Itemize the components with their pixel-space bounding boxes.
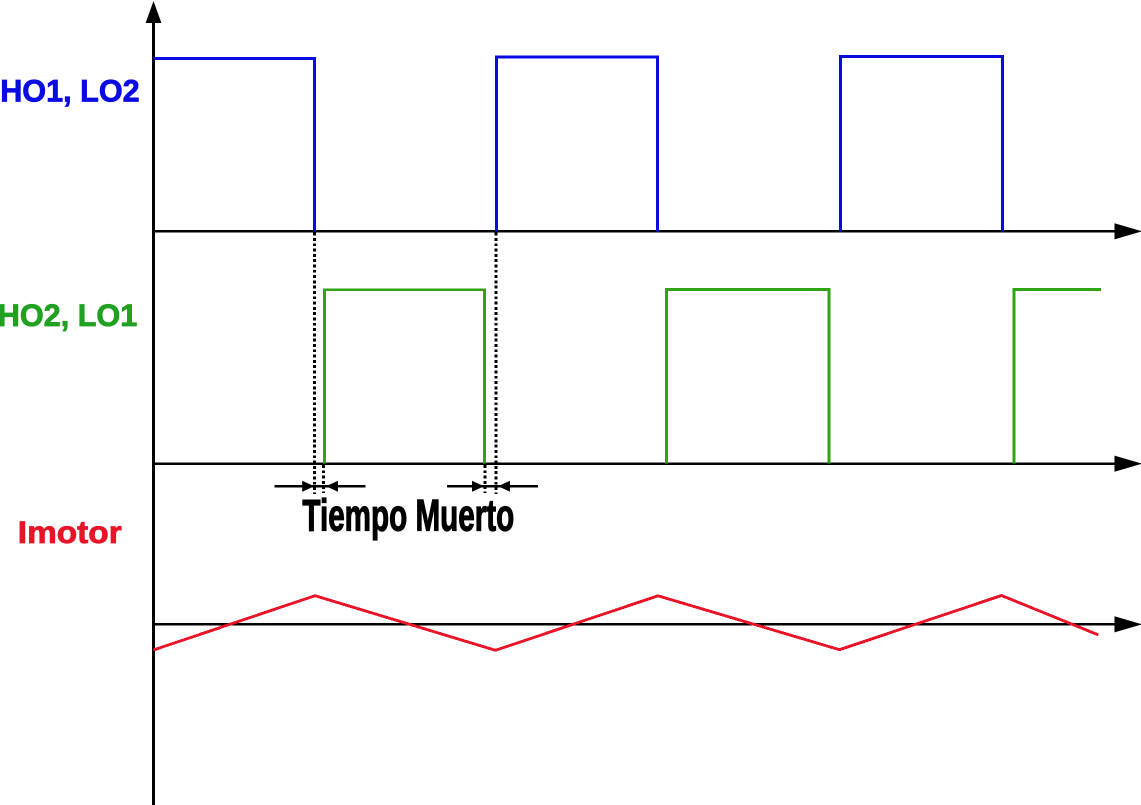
vertical time axis [152,10,155,805]
green waveform HO2,LO1 [324,290,1101,464]
svg-text:HO2, LO1: HO2, LO1 [0,297,137,333]
baseline 3 (Imotor axis) [152,623,1116,626]
dotted line at blue rising edge [494,233,497,494]
dead time arrow line left [275,485,366,488]
blue waveform HO1,LO2 [154,56,1003,231]
baseline 1 (HO1/LO2 axis) [152,230,1116,233]
dead time right left-pointing arrowhead [498,481,510,492]
svg-text:HO1, LO2: HO1, LO2 [0,72,140,108]
baseline 1 arrowhead [1115,223,1141,239]
dotted line at green rising edge [322,465,325,493]
dead time left left-pointing arrowhead [326,481,338,492]
dead time arrow line right [447,485,538,488]
vertical axis arrowhead [146,1,162,23]
dotted line at green falling edge [484,465,487,493]
red waveform Imotor [154,596,1099,651]
baseline 2 arrowhead [1115,456,1141,472]
svg-text:Tiempo Muerto: Tiempo Muerto [302,491,514,540]
baseline 2 (HO2/LO1 axis) [152,462,1116,465]
dead time right right-pointing arrowhead [472,481,484,492]
baseline 3 arrowhead [1115,616,1141,632]
svg-text:Imotor: Imotor [18,514,122,550]
dotted line at blue falling edge [313,233,316,494]
dead time left right-pointing arrowhead [302,481,314,492]
